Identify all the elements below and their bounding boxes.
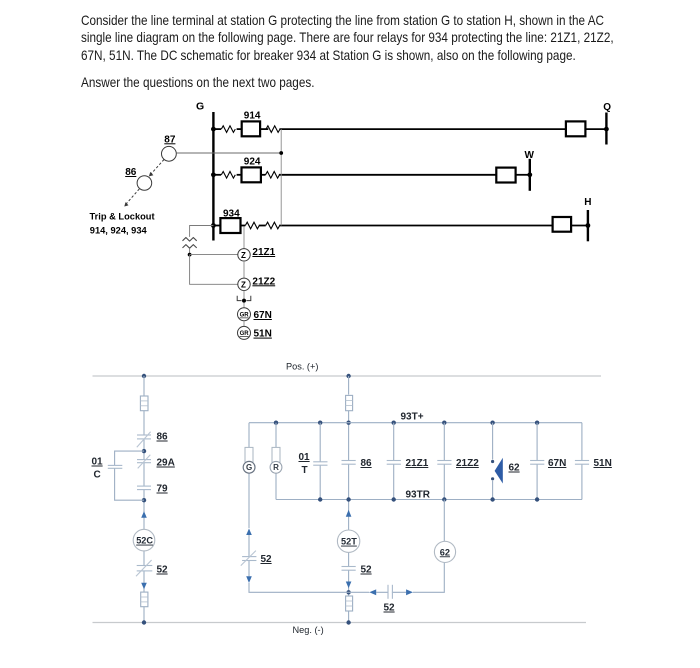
svg-text:21Z2: 21Z2 [456, 458, 479, 469]
node 21Z1 top [392, 421, 396, 425]
contact 21Z2 [437, 461, 451, 465]
CT zigzag 934 right [266, 222, 280, 229]
node 62 top [490, 421, 494, 425]
lamp R [270, 447, 282, 473]
label Pos. (+) [286, 362, 318, 372]
svg-text:52: 52 [361, 565, 373, 576]
svg-text:Z: Z [241, 251, 246, 260]
remote breaker at W [496, 168, 515, 183]
svg-text:W: W [525, 150, 535, 161]
relay 51N [238, 326, 251, 339]
remote breaker at H [553, 217, 572, 232]
svg-text:62: 62 [509, 463, 521, 474]
svg-text:93TR: 93TR [406, 489, 431, 500]
svg-text:Z: Z [241, 281, 246, 290]
wire R lamp branch [275, 423, 277, 500]
label Neg. (-) [293, 625, 324, 635]
arrow down G branch [246, 576, 252, 583]
breaker 924 [242, 167, 261, 182]
bus 93TR [276, 499, 582, 501]
CT zigzag 934 left [245, 222, 259, 229]
positive rail [93, 375, 602, 377]
node 93T+ center [346, 421, 350, 425]
dashed arrow 86 to trip text [124, 189, 139, 207]
label 93T+ [401, 411, 424, 422]
node neg rail center [346, 620, 350, 624]
label 52 [157, 565, 169, 576]
svg-text:21Z1: 21Z1 [252, 247, 275, 258]
label Trip & Lockout [90, 212, 155, 236]
arrow up to 52C [141, 511, 147, 518]
wire to 21Z1 [190, 254, 238, 256]
label 52 bottom [384, 603, 396, 614]
wire 21Z2 branch [443, 423, 445, 500]
svg-text:914, 924, 934: 914, 924, 934 [90, 226, 148, 236]
wire squiggle to node [189, 248, 191, 254]
label 21Z1 [252, 247, 275, 258]
node: line 934 / bus H [586, 223, 591, 228]
node 67N top [535, 421, 539, 425]
fuse F2 [141, 592, 148, 607]
svg-text:79: 79 [157, 484, 169, 495]
node 79 bottom [142, 498, 146, 502]
wire 01C parallel branch [115, 451, 144, 500]
wire 62 branch [492, 423, 494, 500]
wire 51N branch [581, 423, 583, 500]
node 62 contact upper [491, 460, 494, 463]
contact 67N [530, 461, 544, 465]
CT zigzag 914 left [221, 126, 235, 133]
fuse F1 [140, 396, 148, 411]
node 21Z1 bottom [392, 497, 396, 501]
label 01 C [92, 457, 104, 481]
fuse F3 [346, 395, 353, 410]
svg-text:GR: GR [240, 331, 250, 337]
svg-text:29A: 29A [157, 458, 175, 469]
contact 01/T [313, 462, 327, 465]
label 51N dc [594, 458, 612, 469]
label 51N [254, 329, 272, 340]
PT squiggle symbol [183, 238, 197, 249]
contact 51N [575, 461, 589, 465]
node: line 914 / bus Q [604, 127, 609, 132]
svg-text:52T: 52T [341, 537, 357, 547]
node neg rail left [142, 620, 146, 624]
relay 86 lockout [137, 176, 152, 191]
wire G lamp branch [249, 423, 349, 593]
relay 67N [238, 308, 251, 321]
wire 21Z2 to CT bracket [243, 291, 245, 308]
svg-text:914: 914 [244, 111, 261, 122]
label 924 [244, 157, 261, 168]
wire to 21Z2 [190, 255, 238, 285]
label 914 [244, 111, 261, 122]
node trip junction [279, 151, 283, 155]
remote breaker at Q [566, 121, 586, 136]
node: bus G / line 934 junction [211, 223, 216, 228]
label 93TR [406, 489, 431, 500]
svg-text:86: 86 [361, 458, 373, 469]
wire 67N to 51N [243, 321, 245, 327]
label 79 [157, 484, 169, 495]
node pos rail left [142, 374, 146, 378]
coil 52T [337, 530, 359, 552]
negative rail [93, 622, 587, 624]
node pos rail center [346, 374, 350, 378]
CT zigzag 914 right [266, 126, 280, 133]
node 01T top [318, 421, 322, 425]
svg-text:G: G [246, 463, 252, 472]
label 29A [157, 458, 175, 469]
svg-text:52: 52 [384, 603, 396, 614]
svg-text:Neg. (-): Neg. (-) [293, 625, 324, 635]
bus 93T+ [249, 422, 582, 424]
svg-text:01: 01 [299, 452, 311, 463]
label 52 G branch [261, 554, 273, 565]
node 21Z2 top [442, 421, 446, 425]
svg-text:67N: 67N [548, 458, 566, 469]
svg-text:62: 62 [440, 547, 450, 557]
svg-text:T: T [302, 465, 308, 476]
wire line 934 [213, 225, 588, 227]
node 21Z2 bottom [442, 497, 446, 501]
label 52 center [361, 565, 373, 576]
node bottom center [346, 590, 350, 594]
svg-text:86: 86 [125, 167, 137, 178]
wire 67N branch [536, 423, 538, 500]
bus W [529, 159, 531, 191]
svg-text:52: 52 [261, 554, 273, 565]
fuse F4 [346, 596, 353, 611]
svg-text:51N: 51N [254, 329, 272, 340]
wire 87 trip lead [176, 152, 281, 154]
wire line 914 [213, 128, 606, 130]
wire 21Z1 branch [393, 423, 395, 500]
label 67N dc [548, 458, 566, 469]
label 934 [223, 208, 240, 219]
label 67N [254, 310, 272, 321]
node R branch top [274, 421, 278, 425]
svg-text:Q: Q [603, 102, 611, 113]
svg-text:21Z2: 21Z2 [252, 276, 275, 287]
bus Q [605, 113, 607, 145]
label 21Z2 dc [456, 458, 479, 469]
svg-text:Trip & Lockout: Trip & Lockout [90, 212, 155, 222]
contact 79 (a) [137, 486, 151, 490]
contact 52 bottom (vertical plates) [388, 585, 392, 599]
wire left branch [143, 376, 145, 623]
contact 21Z1 [387, 461, 401, 465]
wire 21Z1 to 21Z2 [243, 261, 245, 278]
label 86 [125, 167, 137, 178]
svg-text:67N: 67N [254, 310, 272, 321]
wire 62 coil branch [349, 500, 445, 593]
svg-text:86: 86 [157, 432, 169, 443]
node 62 contact lower [491, 477, 494, 480]
svg-text:GR: GR [240, 313, 250, 319]
label 21Z1 dc [406, 458, 429, 469]
wire PT tap from bus [190, 226, 214, 237]
svg-text:52: 52 [157, 565, 169, 576]
node 67N bottom [535, 497, 539, 501]
node: bus G / line 924 junction [211, 172, 216, 177]
svg-text:01: 01 [92, 457, 104, 468]
contact 01/C [108, 465, 123, 468]
label W [525, 150, 535, 161]
contact 52 G branch (b) [241, 551, 257, 566]
breaker 914 [242, 121, 260, 136]
relay 21Z1 [238, 249, 250, 261]
coil 52C [133, 529, 155, 551]
CT zigzag 924 right [266, 172, 280, 179]
bus H [587, 210, 589, 241]
svg-text:52C: 52C [136, 536, 153, 546]
label 86 [157, 432, 169, 443]
svg-text:Pos. (+): Pos. (+) [286, 362, 318, 372]
label 86 trip [361, 458, 373, 469]
coil 62 [434, 541, 455, 562]
arrow left on bottom wire [369, 589, 376, 595]
svg-text:G: G [196, 101, 204, 113]
label 01 T [299, 452, 311, 476]
contact 86 (b) [137, 432, 151, 448]
wire 934 CT to 21Z1 [243, 226, 245, 248]
node CT bracket [242, 299, 246, 303]
contact 52 center [342, 567, 356, 571]
svg-text:87: 87 [164, 134, 176, 145]
wire center branch [348, 376, 350, 623]
label G [196, 101, 204, 113]
svg-text:924: 924 [244, 157, 261, 168]
wire trip vertical [280, 129, 282, 225]
arrow down to fuse [141, 583, 147, 590]
wire line 924 [213, 174, 529, 176]
wire 01T branch [319, 423, 321, 500]
node 01T bottom [318, 497, 322, 501]
label 62 contact [509, 463, 521, 474]
node 86/29A [142, 449, 146, 453]
svg-text:H: H [584, 197, 591, 208]
contact 29A (b) [137, 455, 151, 469]
svg-text:21Z1: 21Z1 [406, 458, 429, 469]
relay 21Z2 [238, 278, 250, 290]
CT zigzag 924 left [221, 172, 235, 179]
label H [584, 197, 591, 208]
arrow right on bottom wire [406, 589, 413, 595]
node PT secondary [188, 253, 192, 257]
node: bus G / line 914 junction [211, 127, 216, 132]
arrow up G branch [246, 529, 252, 536]
label 87 [164, 134, 176, 145]
dashed arrow 87 to 86 [149, 160, 164, 177]
node 62 bottom [490, 497, 494, 501]
arrow up to 52T [346, 510, 352, 517]
label 21Z2 [252, 276, 275, 287]
node: line 924 / bus W [527, 172, 532, 177]
arrow down center [346, 582, 352, 589]
lamp G [243, 447, 255, 473]
svg-text:93T+: 93T+ [401, 411, 424, 422]
contact 52 (b) left branch [136, 560, 152, 576]
relay 87 [162, 146, 177, 161]
svg-text:C: C [94, 470, 101, 481]
node 93TR center [346, 497, 350, 501]
breaker 934 [220, 218, 240, 233]
svg-text:51N: 51N [594, 458, 612, 469]
svg-text:R: R [273, 463, 279, 472]
contact 86 trip [342, 461, 356, 465]
label Q [603, 102, 611, 113]
svg-text:934: 934 [223, 208, 240, 219]
bus G [212, 112, 214, 241]
contact 62 flag [495, 458, 503, 484]
CT ground bracket [237, 296, 251, 301]
